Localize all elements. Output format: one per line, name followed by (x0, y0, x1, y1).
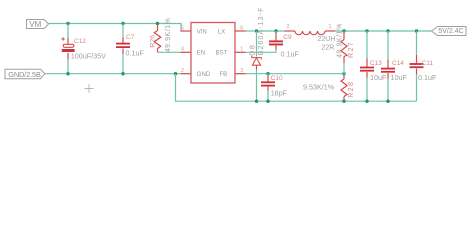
svg-text:FB: FB (220, 72, 228, 78)
node junction LX/D8 (255, 29, 258, 32)
node junction gnd/R28 (342, 100, 345, 103)
node junction out/C14 (386, 29, 389, 32)
wire D8 cathode lead (256, 31, 258, 57)
node junction VM/R26 (156, 22, 159, 25)
node junction out/R27 (342, 29, 345, 32)
svg-text:1: 1 (329, 24, 332, 30)
svg-text:18pF: 18pF (271, 89, 288, 98)
node junction FB/C10 (266, 72, 269, 75)
resistor R28 (303, 74, 355, 102)
svg-text:R28: R28 (348, 81, 355, 98)
wire C12 top lead (67, 24, 69, 38)
node junction VM/C7 (121, 22, 124, 25)
wire C7 bottom lead (122, 54, 124, 74)
svg-text:GND: GND (197, 72, 211, 78)
wire output rail (335, 30, 432, 32)
wire GND net from flag (45, 73, 181, 75)
svg-text:EN: EN (197, 51, 205, 57)
capacitor C14 (381, 31, 407, 101)
node junction gnd/D8 (255, 100, 258, 103)
svg-text:10uF: 10uF (370, 73, 387, 82)
svg-text:C12: C12 (74, 38, 86, 45)
wire C7 top lead (122, 24, 124, 38)
svg-text:2: 2 (287, 24, 290, 30)
net flag VM (27, 20, 49, 30)
resistor R27 (337, 23, 356, 74)
diode D8 schottky (249, 7, 265, 66)
node junction out/C11 (415, 29, 418, 32)
pin EN stub (181, 51, 192, 53)
svg-text:VIN: VIN (197, 29, 207, 35)
inductor L stub right (325, 30, 335, 32)
capacitor C13 (360, 31, 387, 101)
wire LX rail (246, 30, 285, 32)
svg-text:0.1uF: 0.1uF (418, 73, 437, 82)
wire D8 anode lead (256, 65, 258, 69)
wire C9 to BST (246, 50, 277, 53)
svg-text:C13: C13 (370, 60, 382, 67)
wire C10 top lead (267, 74, 269, 76)
capacitor C12 (61, 37, 106, 60)
node junction gnd/C13 (365, 100, 368, 103)
pin GND stub (181, 73, 192, 75)
pin VIN stub (181, 30, 192, 32)
svg-text:6: 6 (240, 25, 243, 31)
svg-text:5: 5 (181, 25, 184, 31)
svg-text:10uF: 10uF (391, 73, 408, 82)
capacitor C9 (269, 33, 299, 59)
op-amp U1 buck regulator IC box (191, 23, 235, 84)
node junction FB/R27/R28 (342, 72, 345, 75)
svg-text:B260A-13-F: B260A-13-F (258, 7, 265, 56)
svg-text:22UH: 22UH (318, 36, 336, 43)
svg-text:C14: C14 (392, 60, 404, 67)
net flag 5V/2.4C (432, 27, 467, 36)
svg-text:1: 1 (240, 47, 243, 53)
svg-text:49.9K/1%: 49.9K/1% (165, 18, 172, 53)
wire VM rail (49, 24, 182, 32)
svg-text:0.1uF: 0.1uF (126, 49, 145, 58)
svg-text:49.9K/1%: 49.9K/1% (337, 23, 344, 58)
pin FB stub (235, 73, 246, 75)
wire FB net (246, 73, 345, 75)
origin cross marker (85, 84, 94, 93)
svg-text:BST: BST (216, 51, 228, 57)
inductor L1 22uH (295, 31, 325, 35)
node junction GND/C7 (121, 72, 124, 75)
svg-text:0.1uF: 0.1uF (281, 49, 300, 58)
svg-text:9.53K/1%: 9.53K/1% (303, 83, 335, 92)
wire C12 bottom lead (67, 59, 69, 74)
capacitor C10 (261, 75, 288, 98)
svg-text:C7: C7 (126, 34, 135, 41)
svg-text:C9: C9 (283, 34, 292, 41)
pin LX stub (235, 30, 246, 32)
inductor L stub left (285, 30, 296, 32)
svg-text:100uF/35V: 100uF/35V (71, 51, 106, 60)
svg-text:GND/2.5B: GND/2.5B (8, 70, 41, 79)
svg-text:22R: 22R (322, 44, 335, 51)
node junction gnd/C10 (266, 100, 269, 103)
node junction gnd/C14 (386, 100, 389, 103)
capacitor C11 (410, 31, 437, 101)
wire C10 bottom lead (267, 91, 269, 102)
svg-text:R27: R27 (348, 41, 355, 58)
net flag GND/2.5B (5, 69, 45, 79)
node junction GND/C12 (66, 72, 69, 75)
resistor R26 (150, 18, 172, 53)
svg-text:C11: C11 (422, 60, 434, 67)
node junction VM/C12 (66, 22, 69, 25)
wire C9 top lead (275, 31, 277, 33)
svg-text:3: 3 (240, 68, 243, 74)
svg-text:D8: D8 (249, 44, 256, 56)
wire GND drop to bottom rail (176, 74, 417, 102)
node junction GND drop (174, 72, 177, 75)
wire R26 to EN (158, 51, 181, 53)
svg-text:LX: LX (218, 29, 225, 35)
capacitor C7 (116, 34, 144, 58)
node junction LX/C9 (274, 29, 277, 32)
pin BST stub (235, 51, 246, 53)
svg-text:R26: R26 (150, 35, 157, 48)
svg-text:2: 2 (181, 68, 184, 74)
svg-text:5V/2.4C: 5V/2.4C (438, 28, 463, 35)
svg-text:4: 4 (181, 47, 184, 53)
svg-text:C10: C10 (271, 75, 283, 82)
node junction out/C13 (365, 29, 368, 32)
svg-text:VM: VM (29, 20, 41, 29)
